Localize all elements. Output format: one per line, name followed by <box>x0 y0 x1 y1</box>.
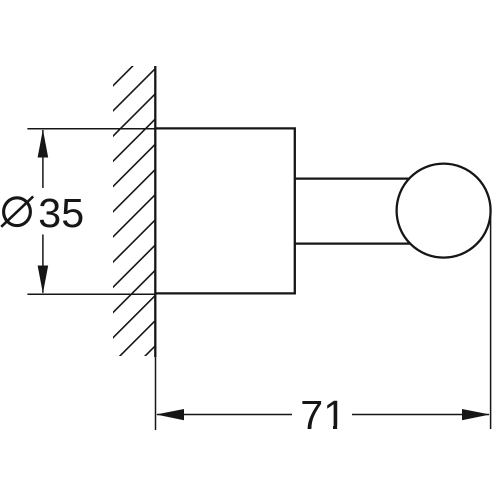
svg-text:35: 35 <box>38 190 84 236</box>
